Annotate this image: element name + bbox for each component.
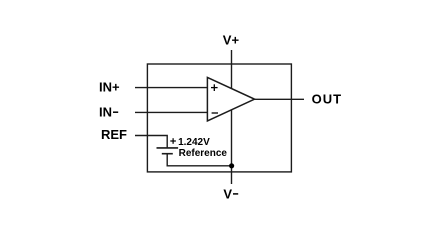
svg-text:Reference: Reference bbox=[179, 148, 228, 159]
svg-text:1.242V: 1.242V bbox=[178, 137, 210, 148]
op-amp U1 triangle bbox=[207, 77, 254, 121]
battery plus polarity mark bbox=[170, 138, 176, 144]
wire OUT bbox=[253, 98, 304, 100]
wire IN- bbox=[135, 111, 208, 113]
svg-text:V+: V+ bbox=[223, 33, 240, 48]
svg-text:V: V bbox=[223, 186, 232, 201]
battery reference long plate bbox=[157, 147, 179, 149]
battery reference short plate bbox=[162, 153, 173, 155]
op-amp plus input mark bbox=[211, 84, 218, 91]
wire REF bbox=[135, 136, 167, 149]
wire V+/V- vertical supply line bbox=[231, 50, 233, 184]
junction dot on V- rail bbox=[229, 163, 234, 168]
svg-text:REF: REF bbox=[101, 127, 127, 142]
svg-text:OUT: OUT bbox=[312, 92, 342, 107]
svg-text:IN: IN bbox=[99, 104, 112, 119]
wire battery negative to V- rail bbox=[167, 154, 231, 166]
svg-text:IN+: IN+ bbox=[99, 79, 120, 94]
block outline box bbox=[147, 64, 291, 172]
op-amp minus input mark bbox=[212, 112, 218, 114]
wire IN+ bbox=[135, 87, 208, 89]
